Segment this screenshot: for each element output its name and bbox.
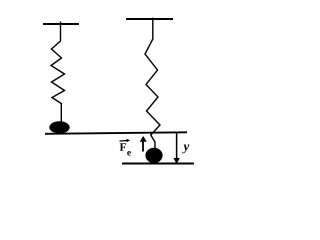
right spring (stretched) — [145, 39, 160, 150]
label Fe vector bar — [120, 140, 129, 143]
right mass — [145, 148, 162, 163]
svg-text:e: e — [127, 148, 131, 158]
force arrow Fe shaft (upward) — [142, 141, 144, 152]
left ceiling support — [43, 23, 79, 25]
svg-text:F: F — [119, 142, 126, 154]
displacement arrow y shaft (downward) — [176, 133, 178, 160]
left mass — [49, 121, 69, 133]
right ceiling hook — [152, 18, 154, 40]
left ceiling hook — [60, 22, 62, 42]
svg-text:y: y — [181, 138, 189, 153]
reference line (equilibrium level) — [45, 132, 187, 134]
displacement arrow y head — [173, 158, 179, 164]
left spring (unstretched) — [51, 41, 65, 122]
lower line (stretched level) — [122, 163, 194, 165]
right ceiling support — [126, 18, 173, 20]
label Fe vector bar head — [127, 139, 131, 142]
force arrow Fe head — [140, 136, 147, 142]
